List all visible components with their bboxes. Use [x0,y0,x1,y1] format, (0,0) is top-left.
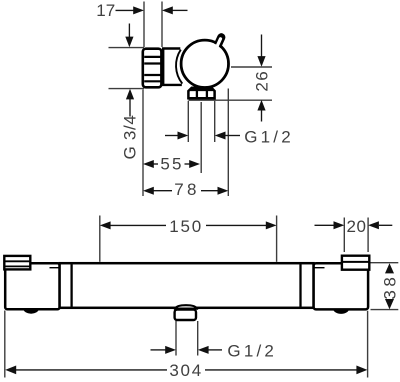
svg-text:304: 304 [169,361,202,380]
svg-text:78: 78 [174,180,199,199]
svg-text:17: 17 [96,1,115,20]
svg-text:55: 55 [160,155,183,174]
svg-text:38: 38 [380,274,399,300]
svg-text:G 3/4: G 3/4 [121,114,140,159]
svg-text:26: 26 [252,70,271,92]
svg-text:20: 20 [347,217,367,236]
svg-text:150: 150 [169,217,203,236]
svg-text:G1/2: G1/2 [227,341,277,360]
svg-text:G1/2: G1/2 [244,128,294,147]
